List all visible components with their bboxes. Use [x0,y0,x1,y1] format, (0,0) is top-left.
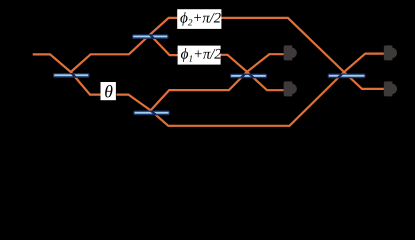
wire shadow under BS1 bar [71,72,90,95]
wire: BS1 reflection up through BS2 to phi2 box [71,18,178,72]
wire shadow under BS3 bar [151,110,169,125]
beamsplitter BS1 bar [53,73,90,78]
wire: BS3 reflection up through BS4 to detector D1 [151,54,284,110]
wire: theta output down through BS3 along bottom up through BS5 to detector D2 [117,54,384,126]
wire shadow under BS4 bar [229,72,267,90]
beamsplitter BS2 bar [132,34,169,39]
wire shadow under BS5 bar [288,18,344,126]
beamsplitter BS3 bar [133,111,170,116]
label phi2+pi/2 [180,12,220,26]
wire: input + through BS1 down to theta [33,54,101,94]
wire: phi2 output long top rail down through BS5 to detector D4 [221,18,384,89]
wire: phi1 output down through BS4 to detector D3 [220,55,283,90]
beamsplitter BS5 bar [328,74,366,79]
wire: BS2 reflection down to phi1 box [150,35,178,56]
detector D2 [384,45,397,60]
wire shadow under BS2 bar [150,35,170,56]
detector D3 [284,81,297,96]
detector D1 [284,45,297,60]
phase shifter box phi2+pi/2 [177,9,221,29]
phase shifter box theta [101,82,116,100]
phase shifter box phi1+pi/2 [178,46,221,65]
detector D4 [384,81,397,96]
label phi1+pi/2 [181,48,221,62]
beamsplitter BS4 bar [230,74,267,79]
label theta [105,85,112,97]
